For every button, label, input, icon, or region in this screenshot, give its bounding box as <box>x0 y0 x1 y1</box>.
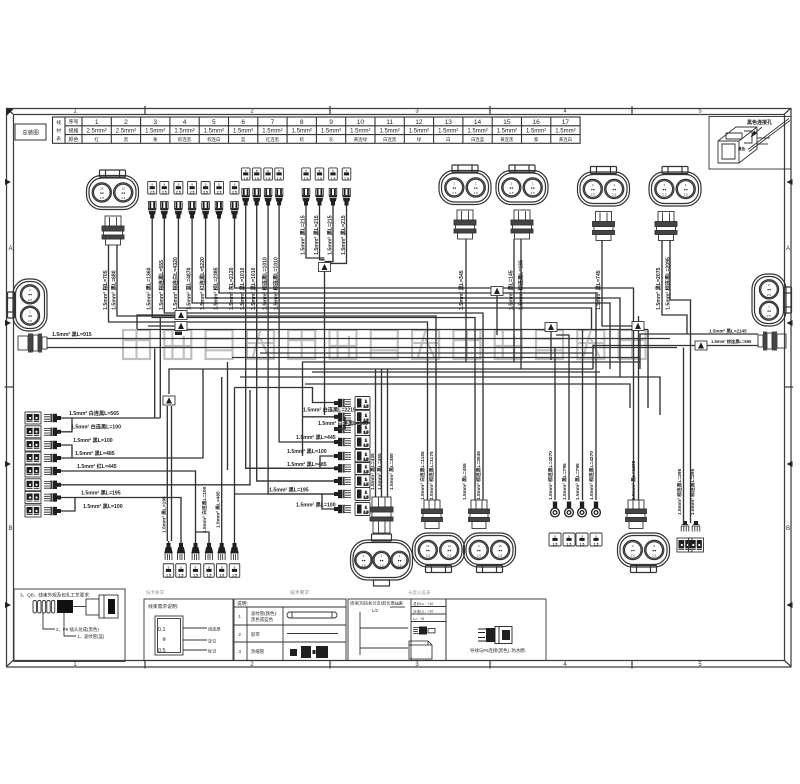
svg-text:2: 2 <box>124 119 128 126</box>
svg-text:14: 14 <box>426 544 430 548</box>
wire <box>520 239 522 369</box>
terminal TM8 <box>334 490 351 498</box>
wire <box>387 369 389 497</box>
svg-text:⑧: ⑧ <box>162 637 167 643</box>
svg-text:2.5: 2.5 <box>652 554 657 558</box>
svg-text:材: 材 <box>56 127 61 133</box>
svg-text:1.5mm² 黑L=485: 1.5mm² 黑L=485 <box>75 449 115 457</box>
svg-text:●●: ●● <box>447 548 451 552</box>
terminal TR2 (ring) <box>565 502 574 517</box>
svg-text:1.5mm² 黑L=455: 1.5mm² 黑L=455 <box>461 463 468 500</box>
wire <box>47 338 670 340</box>
wire <box>647 330 649 409</box>
connector XM6 <box>355 462 370 475</box>
wire <box>235 493 335 495</box>
svg-text:线皮厚: 线皮厚 <box>208 626 221 633</box>
connector C3 (2-pin oval) <box>496 165 548 205</box>
terminal T32 <box>315 189 323 206</box>
svg-text:2.5mm²: 2.5mm² <box>116 129 136 135</box>
svg-text:1.5mm² 棕连白L=4320: 1.5mm² 棕连白L=4320 <box>171 257 179 310</box>
svg-text:红连黑: 红连黑 <box>266 136 280 143</box>
svg-text:1.5mm² 黑L=795: 1.5mm² 黑L=795 <box>561 463 568 500</box>
wire <box>169 369 593 394</box>
svg-text:B: B <box>8 526 12 532</box>
svg-text:11: 11 <box>386 119 393 126</box>
connector X15 (single-pin block) <box>201 182 210 195</box>
wire table 线材表 <box>53 117 581 143</box>
splice SP-C <box>175 322 187 331</box>
svg-text:总装图: 总装图 <box>22 129 39 137</box>
connector X12 (single-pin block) <box>160 182 169 195</box>
svg-text:1.5: 1.5 <box>364 496 369 500</box>
wire <box>208 541 210 543</box>
svg-text:线: 线 <box>56 119 61 125</box>
svg-text:波纹管(颜色):: 波纹管(颜色): <box>251 610 277 617</box>
svg-text:总长L≤.. +10: 总长L≤.. +10 <box>413 601 433 606</box>
wire <box>168 541 170 543</box>
svg-text:1.5: 1.5 <box>379 564 384 568</box>
svg-text:分支L≤.. +10: 分支L≤.. +10 <box>413 609 433 614</box>
connector X14 (single-pin block) <box>188 182 197 195</box>
svg-text:1.5mm² 棕连黑L=165: 1.5mm² 棕连黑L=165 <box>517 260 525 310</box>
svg-text:1: 1 <box>365 506 367 510</box>
svg-text:1.5: 1.5 <box>266 177 271 181</box>
svg-text:1.5mm²: 1.5mm² <box>204 129 224 135</box>
svg-text:1.5mm²: 1.5mm² <box>262 129 282 135</box>
svg-text:1.5mm² 黑L=480: 1.5mm² 黑L=480 <box>388 453 395 490</box>
svg-text:●●: ●● <box>379 558 383 562</box>
wire <box>180 541 182 543</box>
svg-text:●●: ●● <box>612 187 616 191</box>
svg-text:1: 1 <box>365 413 367 417</box>
terminal TL1 <box>44 414 61 422</box>
svg-text:1.5mm² 黑L=2145: 1.5mm² 黑L=2145 <box>709 328 747 335</box>
terminal T16 <box>215 202 223 219</box>
terminal TL5 <box>44 467 61 475</box>
svg-text:2.5: 2.5 <box>100 196 105 200</box>
svg-text:1.5mm² 黑L=100: 1.5mm² 黑L=100 <box>83 502 123 510</box>
svg-text:1: 1 <box>365 400 367 404</box>
svg-text:蓝: 蓝 <box>241 136 246 142</box>
svg-text:15: 15 <box>503 119 511 126</box>
svg-text:1: 1 <box>365 453 367 457</box>
connector X33 (single-pin block) <box>329 168 338 180</box>
connector X24 (single-pin block) <box>275 168 284 180</box>
wire <box>221 541 223 543</box>
svg-text:热缩管: 热缩管 <box>251 648 265 655</box>
svg-text:白连黑: 白连黑 <box>383 136 397 143</box>
wire <box>196 532 210 541</box>
terminal TL2 <box>44 428 61 436</box>
svg-text:14: 14 <box>474 119 482 126</box>
svg-text:1.5mm² 黑L=215: 1.5mm² 黑L=215 <box>312 215 320 255</box>
svg-text:1.5: 1.5 <box>567 542 572 546</box>
connector XL5 <box>25 465 41 477</box>
svg-text:6: 6 <box>241 119 245 126</box>
terminal TS5 <box>218 543 226 560</box>
svg-text:1.5mm² 黑L=195: 1.5mm² 黑L=195 <box>269 486 309 494</box>
svg-text:白连蓝: 白连蓝 <box>471 136 485 143</box>
svg-text:1.5mm² 黑L=455: 1.5mm² 黑L=455 <box>376 453 383 490</box>
svg-text:2.5: 2.5 <box>217 191 222 195</box>
wire <box>381 369 383 497</box>
wire <box>61 471 196 541</box>
svg-text:黄连绿: 黄连绿 <box>354 136 368 143</box>
svg-text:2.5: 2.5 <box>28 319 33 323</box>
wire <box>171 406 173 541</box>
wire <box>61 390 250 485</box>
svg-text:1.5mm² 白连黑L=565: 1.5mm² 白连黑L=565 <box>69 409 119 417</box>
svg-text:2.5: 2.5 <box>203 191 208 195</box>
wire <box>320 206 325 260</box>
terminal TR4 (ring) <box>592 502 601 517</box>
frame row marks <box>5 109 793 609</box>
svg-text:1.5: 1.5 <box>364 444 369 448</box>
wire <box>219 219 596 501</box>
svg-text:1.5: 1.5 <box>594 542 599 546</box>
wire <box>303 416 335 418</box>
svg-text:1.5mm² 黑L=1010: 1.5mm² 黑L=1010 <box>249 267 257 310</box>
svg-text:1.5: 1.5 <box>344 177 349 181</box>
wire <box>320 456 334 468</box>
terminal TL3 <box>44 441 61 449</box>
terminal T31 <box>302 189 310 206</box>
terminal TM9 <box>334 505 351 513</box>
svg-text:15: 15 <box>499 544 503 548</box>
terminal XP3 <box>626 500 647 529</box>
connector XL6 <box>25 479 41 491</box>
svg-text:1.5mm²: 1.5mm² <box>555 129 575 135</box>
svg-text:2.5: 2.5 <box>190 191 195 195</box>
terminal XT0 (left inline) <box>18 334 47 353</box>
svg-text:1.5: 1.5 <box>304 177 309 181</box>
svg-text:1.5mm² 白连黑L=2215: 1.5mm² 白连黑L=2215 <box>303 406 356 414</box>
terminal T11 <box>148 202 156 219</box>
svg-text:1.5: 1.5 <box>254 177 259 181</box>
svg-text:1.5mm² 黑L=215: 1.5mm² 黑L=215 <box>339 215 347 255</box>
svg-text:技术要求:: 技术要求: <box>290 589 311 596</box>
svg-text:A: A <box>8 246 12 252</box>
svg-text:1.5: 1.5 <box>364 483 369 487</box>
svg-text:1.5mm² 黑L=215: 1.5mm² 黑L=215 <box>326 215 334 255</box>
wire <box>246 467 334 469</box>
wire <box>556 335 569 500</box>
svg-text:1.5: 1.5 <box>179 573 184 577</box>
svg-text:●●: ●● <box>498 548 502 552</box>
svg-text:●●: ●● <box>397 558 401 562</box>
terminal T23 <box>264 189 272 206</box>
svg-text:1.5mm² 黑L=795: 1.5mm² 黑L=795 <box>574 463 581 500</box>
svg-text:●●: ●● <box>509 186 513 190</box>
wire <box>178 219 591 330</box>
svg-text:3: 3 <box>153 119 157 126</box>
wire <box>303 362 641 456</box>
connector XS5 (single-pin block) <box>216 564 227 578</box>
svg-text:1.5mm² 红连黑L=5220: 1.5mm² 红连黑L=5220 <box>198 257 206 310</box>
terminal TM3 <box>334 425 351 433</box>
terminal T15 <box>201 202 209 219</box>
svg-text:L/2: L/2 <box>372 608 378 613</box>
svg-text:1.5mm²: 1.5mm² <box>292 129 312 135</box>
svg-text:1.5mm²: 1.5mm² <box>409 129 429 135</box>
wire <box>137 329 648 331</box>
svg-text:1.5: 1.5 <box>364 470 369 474</box>
terminal XT1 <box>102 216 124 245</box>
svg-text:1.5mm² 黑L=1010: 1.5mm² 黑L=1010 <box>238 267 246 310</box>
wire <box>234 541 236 543</box>
title box 总装图 <box>15 124 46 140</box>
svg-text:1.5: 1.5 <box>580 542 585 546</box>
wire <box>260 352 593 354</box>
terminal T34 <box>342 189 350 206</box>
title block 2 (说明) <box>234 599 346 661</box>
svg-text:1.5mm²: 1.5mm² <box>526 129 546 135</box>
drawing frame border <box>5 106 794 669</box>
wire <box>137 315 175 329</box>
connector P1 (2-pin oval) <box>413 533 465 573</box>
svg-text:●●: ●● <box>767 288 771 292</box>
connector XM5 <box>355 450 370 463</box>
terminal TR3 (ring) <box>578 502 587 517</box>
svg-text:白: 白 <box>446 136 450 143</box>
svg-text:2.5: 2.5 <box>591 193 596 197</box>
frame zone labels <box>8 109 790 669</box>
title block 3 (长度公差) <box>348 599 446 661</box>
title block 1 (线束需求说明) <box>144 599 233 661</box>
svg-text:2.5: 2.5 <box>162 191 167 195</box>
wire <box>257 480 334 482</box>
connector XS1 (single-pin block) <box>163 564 174 578</box>
wire <box>582 330 584 501</box>
wire <box>554 348 556 501</box>
svg-text:●●: ●● <box>426 548 430 552</box>
svg-text:13: 13 <box>122 186 126 190</box>
connector X21 (single-pin block) <box>241 168 250 180</box>
svg-text:棕连白: 棕连白 <box>207 136 220 143</box>
svg-text:1.5mm² 黑L=195: 1.5mm² 黑L=195 <box>161 496 168 533</box>
svg-text:黑色: 黑色 <box>738 146 746 151</box>
svg-text:+10: +10 <box>394 602 400 606</box>
terminal XP2 <box>469 500 490 529</box>
connector XL1 <box>25 412 41 424</box>
svg-text:说明:: 说明: <box>237 600 248 607</box>
terminal TS3 <box>191 543 199 560</box>
splice SP-B <box>175 311 187 320</box>
svg-text:1.5mm²: 1.5mm² <box>321 129 341 135</box>
terminal T13 <box>174 202 182 219</box>
svg-text:胶带: 胶带 <box>251 631 260 638</box>
wire <box>305 384 630 408</box>
svg-text:2.5: 2.5 <box>477 554 482 558</box>
wire <box>61 418 72 432</box>
svg-text:1.5mm² 棕连黑L=1175: 1.5mm² 棕连黑L=1175 <box>428 451 435 500</box>
svg-text:1.5mm²: 1.5mm² <box>497 129 517 135</box>
connector C2 (2-pin oval) <box>439 165 491 205</box>
svg-text:2.5: 2.5 <box>452 191 457 195</box>
connector XL3 <box>25 439 41 451</box>
svg-text:导线与P6连接(黑色), 防水圈.: 导线与P6连接(黑色), 防水圈. <box>470 647 526 654</box>
connector C0 (2-pin oval, vertical) <box>8 279 48 331</box>
terminal TL4 <box>44 454 61 462</box>
svg-text:黄连黑: 黄连黑 <box>500 136 514 143</box>
svg-text:1.5mm² 棕连黑L=295: 1.5mm² 棕连黑L=295 <box>676 468 683 515</box>
svg-text:1.5: 1.5 <box>331 177 336 181</box>
wire <box>279 206 295 443</box>
svg-text:1: 1 <box>95 119 99 126</box>
svg-text:2、P6 插头总成(黑色): 2、P6 插头总成(黑色) <box>56 626 99 633</box>
connector XR4 (single-pin block) <box>590 533 602 546</box>
svg-text:1.5mm² 棕连黑L=555: 1.5mm² 棕连黑L=555 <box>157 260 165 310</box>
svg-text:L>.. +5: L>.. +5 <box>413 617 424 621</box>
svg-text:1.5mm² 黑L=345: 1.5mm² 黑L=345 <box>457 270 465 310</box>
wire <box>148 325 175 327</box>
connector C1 (2-pin oval) <box>87 170 139 210</box>
svg-text:序号: 序号 <box>68 119 78 126</box>
svg-text:2.5: 2.5 <box>150 191 155 195</box>
svg-text:●●: ●● <box>28 314 32 318</box>
svg-text:●●: ●● <box>477 548 481 552</box>
connector X16 (single-pin block) <box>215 182 224 195</box>
svg-text:2.5: 2.5 <box>28 298 33 302</box>
svg-text:1.5: 1.5 <box>364 511 369 515</box>
svg-text:1.5mm² 黑L=445: 1.5mm² 黑L=445 <box>296 433 336 441</box>
terminal TS6 <box>230 543 238 560</box>
wire <box>154 349 156 418</box>
connector XM9 <box>355 503 370 516</box>
svg-text:1.5: 1.5 <box>243 177 248 181</box>
svg-text:1.5mm² 棕L=705: 1.5mm² 棕L=705 <box>101 270 109 310</box>
terminal TM6 <box>334 464 351 472</box>
wire <box>235 388 338 403</box>
wire <box>240 377 660 415</box>
svg-text:1.5mm²: 1.5mm² <box>174 129 194 135</box>
svg-text:4: 4 <box>183 119 187 126</box>
svg-text:1.5mm² 棕连黑L=1010: 1.5mm² 棕连黑L=1010 <box>261 257 269 310</box>
wire <box>295 441 334 443</box>
terminal XT2 <box>454 210 476 239</box>
wire <box>195 541 197 543</box>
terminal XP1 <box>422 500 443 529</box>
terminal TL7 <box>44 493 61 501</box>
wire <box>465 239 467 362</box>
wire <box>235 219 634 501</box>
svg-text:1.5: 1.5 <box>277 177 282 181</box>
terminal TS1 <box>164 543 172 560</box>
svg-text:1.5mm²: 1.5mm² <box>438 129 458 135</box>
svg-text:12: 12 <box>415 119 423 126</box>
connector X34 (single-pin block) <box>342 168 351 180</box>
svg-text:17: 17 <box>562 119 570 126</box>
connector XL8 <box>25 505 41 517</box>
connector XR1 (single-pin block) <box>549 533 561 546</box>
wire <box>690 346 692 524</box>
connector P4a <box>677 538 692 552</box>
terminal XT4 <box>593 212 615 241</box>
connector XR3 (single-pin block) <box>576 533 588 546</box>
terminal XP5 <box>370 497 393 533</box>
svg-text:1.5mm² 黑L=915: 1.5mm² 黑L=915 <box>52 330 92 338</box>
svg-text:1.5mm² 黑L=195: 1.5mm² 黑L=195 <box>81 488 121 496</box>
svg-text:1.5mm² 棕L=2385: 1.5mm² 棕L=2385 <box>212 267 220 310</box>
terminal T22 <box>253 189 261 206</box>
svg-text:●●: ●● <box>100 191 104 195</box>
detail box (3D connector sketch) <box>709 117 791 170</box>
svg-text:1.5: 1.5 <box>397 564 402 568</box>
terminal TS2 <box>177 543 185 560</box>
svg-text:1.5mm² 黑L=680: 1.5mm² 黑L=680 <box>110 270 118 310</box>
svg-text:1.5mm² 棕连黑L=4270: 1.5mm² 棕连黑L=4270 <box>588 451 595 500</box>
splice SP-F <box>163 396 175 405</box>
svg-text:棕连黑: 棕连黑 <box>178 136 192 143</box>
connector XS3 (single-pin block) <box>190 564 201 578</box>
wire <box>602 240 632 326</box>
svg-text:1.5mm² 黑L=745: 1.5mm² 黑L=745 <box>594 270 602 310</box>
svg-text:0.1: 0.1 <box>158 627 166 633</box>
wire <box>234 388 236 495</box>
wire <box>325 206 334 262</box>
svg-text:定位: 定位 <box>208 638 216 645</box>
svg-text:1.5: 1.5 <box>364 405 369 409</box>
wire <box>325 206 347 264</box>
wire <box>152 219 475 501</box>
svg-text:2.5: 2.5 <box>767 293 772 297</box>
connector XM2 <box>355 410 370 423</box>
wire <box>246 206 334 469</box>
svg-text:●●: ●● <box>361 558 365 562</box>
svg-text:1.5mm² 黑L=100: 1.5mm² 黑L=100 <box>73 436 113 444</box>
connector X22 (single-pin block) <box>252 168 261 180</box>
wire <box>375 369 377 497</box>
svg-text:1.5mm² 黑L=100: 1.5mm² 黑L=100 <box>296 501 336 509</box>
svg-text:规格: 规格 <box>68 127 78 134</box>
svg-text:表: 表 <box>56 135 61 142</box>
svg-text:1.5mm² 白连黑L=100: 1.5mm² 白连黑L=100 <box>201 486 208 533</box>
table header text <box>56 119 575 144</box>
svg-text:1.5mm² 白连黑L=1155: 1.5mm² 白连黑L=1155 <box>419 451 426 500</box>
svg-text:线束需求说明:: 线束需求说明: <box>148 603 178 610</box>
wire <box>550 332 552 361</box>
svg-text:●●: ●● <box>28 293 32 297</box>
connector XL7 <box>25 492 41 504</box>
svg-text:1.5mm² 棕连黑L=4270: 1.5mm² 棕连黑L=4270 <box>547 451 554 500</box>
svg-text:黑色连接孔: 黑色连接孔 <box>747 119 772 126</box>
wire <box>670 240 691 346</box>
svg-text:2.5: 2.5 <box>662 193 667 197</box>
svg-text:3、QB、线束外观及包扎工艺要求:: 3、QB、线束外观及包扎工艺要求: <box>20 592 90 599</box>
terminal T33 <box>329 189 337 206</box>
connector X31 (single-pin block) <box>302 168 311 180</box>
wire <box>234 494 236 541</box>
svg-text:●●: ●● <box>684 187 688 191</box>
svg-text:1.5mm² 红L=445: 1.5mm² 红L=445 <box>77 462 117 470</box>
connector XS4 (single-pin block) <box>204 564 215 578</box>
connector X23 (single-pin block) <box>264 168 273 180</box>
svg-text:2.5: 2.5 <box>509 191 514 195</box>
svg-text:●●: ●● <box>662 187 666 191</box>
svg-text:1.5mm² 黑L=145: 1.5mm² 黑L=145 <box>507 270 515 310</box>
connector C5 (2-pin oval) <box>649 167 701 207</box>
splice SP-D <box>491 287 503 296</box>
svg-text:●●: ●● <box>474 186 478 190</box>
svg-text:1.5mm² 棕连黑L=1010: 1.5mm² 棕连黑L=1010 <box>272 257 280 310</box>
wire <box>61 498 181 542</box>
svg-text:1.5mm²: 1.5mm² <box>233 129 253 135</box>
svg-text:灰: 灰 <box>329 136 334 143</box>
wire <box>334 417 345 429</box>
connector XS2 (single-pin block) <box>176 564 187 578</box>
svg-text:10: 10 <box>357 119 365 126</box>
svg-text:1.5mm² 棕连黑L=655: 1.5mm² 棕连黑L=655 <box>711 338 752 345</box>
